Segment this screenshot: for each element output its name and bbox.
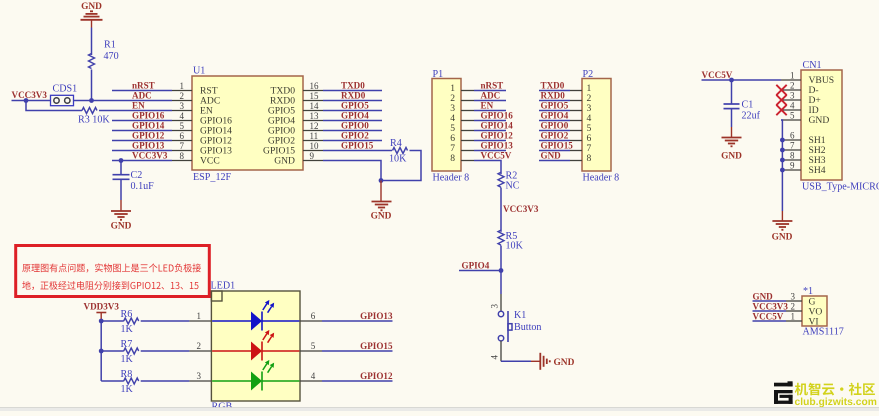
svg-text:Header 8: Header 8 <box>433 173 470 184</box>
net label VCC5V (AMS1117) <box>753 312 784 322</box>
wire net TXD0 (P2) <box>539 90 570 92</box>
net label nRST <box>132 81 155 91</box>
wire net TXD0 (U1 right) <box>323 90 382 92</box>
wire R1 to node <box>91 70 93 101</box>
svg-text:1K: 1K <box>121 324 134 335</box>
svg-text:10K: 10K <box>389 154 407 165</box>
svg-text:U1: U1 <box>193 66 205 77</box>
svg-text:470: 470 <box>104 51 119 62</box>
svg-text:4: 4 <box>311 371 316 381</box>
net label EN (P1) <box>481 101 494 111</box>
wire net GPIO5 (P2) <box>539 110 570 112</box>
wire to C2 <box>120 161 122 175</box>
wire net GPIO13 (P1) <box>474 150 506 152</box>
net label VCC3V3 <box>132 151 168 161</box>
wire net VCC3V3 <box>112 160 172 162</box>
svg-text:LED1: LED1 <box>211 281 236 292</box>
svg-text:GND: GND <box>753 292 774 302</box>
LED green <box>212 360 299 391</box>
net label EN <box>132 101 145 111</box>
net label GPIO12 <box>360 371 393 381</box>
svg-text:R1: R1 <box>104 40 116 51</box>
wire net RXD0 (U1 right) <box>323 100 382 102</box>
net label TXD0 (P2) <box>541 81 565 91</box>
svg-text:VCC3V3: VCC3V3 <box>753 302 789 312</box>
junction C2 <box>119 158 124 163</box>
svg-text:1: 1 <box>790 71 795 81</box>
wire C2 to ground <box>120 179 122 211</box>
svg-text:7: 7 <box>180 141 185 151</box>
net label ADC <box>132 91 152 101</box>
svg-text:RXD0: RXD0 <box>541 91 566 101</box>
net label GPIO2 (U1 right) <box>341 131 369 141</box>
wire EN branch <box>26 101 82 111</box>
svg-text:GPIO15: GPIO15 <box>360 341 393 351</box>
junction R4-GND <box>379 178 384 183</box>
LED blue <box>212 300 299 331</box>
annotation text line1 <box>22 263 201 272</box>
annotation text line2 <box>22 281 198 290</box>
wire net GND (P2) <box>539 160 570 162</box>
resistor R4 <box>389 138 408 165</box>
resistor R5 <box>498 230 524 251</box>
wire net GND (AMS1117) <box>753 300 787 302</box>
LED module LED1 RGB box <box>211 281 301 413</box>
svg-text:2: 2 <box>180 91 185 101</box>
wire net GPIO12 <box>112 140 172 142</box>
junction C1 <box>729 78 734 83</box>
svg-text:GND: GND <box>541 151 562 161</box>
junction R6 <box>99 319 104 324</box>
wire stub to ground <box>380 181 382 202</box>
no-connect X pin3 <box>776 95 786 105</box>
pin 3 label <box>490 304 500 309</box>
svg-text:2: 2 <box>791 302 796 312</box>
no-connect X pin4 <box>776 105 786 115</box>
regulator U2 AMS1117 <box>786 286 844 338</box>
ground GND (CN1) <box>772 221 793 243</box>
connector P1 Header 8 <box>432 69 474 184</box>
svg-text:Header 8: Header 8 <box>583 173 620 184</box>
annotation box <box>16 246 210 297</box>
net label GPIO15 (U1 right) <box>341 141 374 151</box>
net label GPIO13 <box>360 311 393 321</box>
net label GND (AMS1117) <box>753 292 774 302</box>
svg-text:VCC3V3: VCC3V3 <box>503 204 539 214</box>
svg-text:CN1: CN1 <box>803 60 822 71</box>
svg-text:R8: R8 <box>121 369 133 380</box>
net label GPIO14 <box>132 121 165 131</box>
connector P2 Header 8 <box>570 69 619 184</box>
wire R6 to LED <box>141 311 212 321</box>
wire VCC3V3 to CDS1 <box>12 100 51 102</box>
resistor R8 <box>101 369 139 395</box>
svg-text:GPIO4: GPIO4 <box>541 111 569 121</box>
power label VCC5V (CN1) <box>702 70 733 80</box>
pushbutton K1 <box>498 310 541 342</box>
net label GPIO0 (U1 right) <box>341 121 369 131</box>
ground GND (K1, rotated) <box>540 353 574 370</box>
svg-text:8: 8 <box>180 151 185 161</box>
ground GND (C1) <box>721 138 742 162</box>
svg-text:10K: 10K <box>506 241 524 252</box>
wire GPIO4 <box>459 270 501 272</box>
svg-text:GPIO12: GPIO12 <box>360 371 393 381</box>
svg-text:TXD0: TXD0 <box>341 81 365 91</box>
wire net GPIO2 (P2) <box>539 140 570 142</box>
svg-text:22uf: 22uf <box>742 111 761 122</box>
svg-text:Button: Button <box>514 322 541 333</box>
wire net GPIO14 <box>112 130 172 132</box>
wire R4 to ground <box>381 151 421 181</box>
svg-text:nRST: nRST <box>481 81 504 91</box>
svg-text:1: 1 <box>197 311 202 321</box>
svg-text:GND: GND <box>554 358 575 368</box>
power label VDD3V3 <box>84 302 120 322</box>
svg-text:12: 12 <box>310 121 319 131</box>
wire VDD rail <box>100 321 102 381</box>
svg-text:ADC: ADC <box>132 91 152 101</box>
net label GPIO4 <box>462 261 490 271</box>
no-connect X pin2 <box>776 85 786 95</box>
svg-text:GPIO12: GPIO12 <box>481 131 514 141</box>
net label GPIO16 <box>132 111 165 121</box>
svg-text:2: 2 <box>197 341 202 351</box>
wire net GPIO12 (P1) <box>474 140 506 142</box>
svg-text:8: 8 <box>790 151 795 161</box>
net label GPIO4 (U1 right) <box>341 111 369 121</box>
logo glyph <box>774 381 793 404</box>
net label GPIO15 <box>360 341 393 351</box>
svg-text:GPIO16: GPIO16 <box>481 111 514 121</box>
connector CN1 USB_Type-MICRO <box>781 60 879 193</box>
photoresistor CDS1 <box>51 84 78 106</box>
wire R8 to LED <box>141 371 212 381</box>
ground GND (R4) <box>371 202 392 222</box>
svg-text:SH4: SH4 <box>809 165 826 176</box>
net label nRST (P1) <box>481 81 504 91</box>
svg-text:VCC5V: VCC5V <box>702 70 733 80</box>
wire net GPIO15 (P2) <box>539 150 570 152</box>
svg-text:R3 10K: R3 10K <box>78 115 110 126</box>
svg-text:RXD0: RXD0 <box>341 91 366 101</box>
resistor R1 <box>89 40 119 69</box>
svg-text:GPIO4: GPIO4 <box>462 261 490 271</box>
svg-text:VCC3V3: VCC3V3 <box>12 90 48 100</box>
wire GPIO15 to R4 <box>323 150 392 152</box>
svg-text:6: 6 <box>790 131 795 141</box>
svg-text:R4: R4 <box>390 138 402 149</box>
net label GPIO13 <box>132 141 165 151</box>
svg-text:GPIO0: GPIO0 <box>541 121 569 131</box>
wire GPIO15 <box>300 341 393 351</box>
svg-text:6: 6 <box>180 131 185 141</box>
power label VCC3V3 (left) <box>12 90 48 100</box>
net label GPIO13 (P1) <box>481 141 514 151</box>
svg-text:C2: C2 <box>131 170 143 181</box>
wire K1 to ground <box>501 341 540 362</box>
svg-text:VCC5V: VCC5V <box>481 151 512 161</box>
net label TXD0 (U1 right) <box>341 81 365 91</box>
net label GPIO15 (P2) <box>541 141 574 151</box>
svg-text:GPIO14: GPIO14 <box>132 121 165 131</box>
wire net GPIO4 (P2) <box>539 120 570 122</box>
wire VCC5V to R2 <box>474 161 501 175</box>
junction R7 <box>99 349 104 354</box>
svg-text:9: 9 <box>310 151 315 161</box>
svg-text:GPIO0: GPIO0 <box>341 121 369 131</box>
net label RXD0 (U1 right) <box>341 91 366 101</box>
wire net ADC (P1) <box>474 100 506 102</box>
svg-text:10: 10 <box>310 141 320 151</box>
svg-text:GND: GND <box>721 152 742 162</box>
svg-text:3: 3 <box>197 371 202 381</box>
wire R2 to R5 <box>500 188 502 232</box>
svg-text:GPIO5: GPIO5 <box>341 101 369 111</box>
svg-text:5: 5 <box>311 341 316 351</box>
svg-text:VCC5V: VCC5V <box>753 312 784 322</box>
svg-text:9: 9 <box>790 161 795 171</box>
net label VCC3V3 (mid) <box>503 204 539 214</box>
svg-text:GPIO5: GPIO5 <box>541 101 569 111</box>
wire net VCC3V3 (AMS1117) <box>753 310 787 312</box>
svg-text:4: 4 <box>790 101 795 111</box>
IC U1 ESP_12F <box>172 66 323 184</box>
svg-text:*1: *1 <box>803 286 813 297</box>
junction GPIO4 <box>499 268 504 273</box>
net label GPIO4 (P2) <box>541 111 569 121</box>
wire bus to ground <box>781 211 783 221</box>
net label GPIO5 (P2) <box>541 101 569 111</box>
svg-text:C1: C1 <box>742 100 754 111</box>
capacitor C1 <box>724 100 761 122</box>
capacitor C2 <box>113 170 155 192</box>
svg-text:0.1uF: 0.1uF <box>131 181 155 192</box>
wire VCC5V <box>702 79 782 81</box>
wire net GPIO0 (P2) <box>539 130 570 132</box>
svg-text:P1: P1 <box>433 69 444 80</box>
wire net EN (P1) <box>474 110 506 112</box>
svg-text:GND: GND <box>111 222 132 232</box>
svg-text:EN: EN <box>481 101 494 111</box>
svg-text:6: 6 <box>311 311 316 321</box>
svg-text:4: 4 <box>180 111 185 121</box>
svg-text:VCC: VCC <box>200 156 220 167</box>
svg-text:3: 3 <box>790 91 795 101</box>
wire net GPIO16 <box>112 120 172 122</box>
svg-text:TXD0: TXD0 <box>541 81 565 91</box>
svg-text:GPIO12: GPIO12 <box>132 131 165 141</box>
junction <box>24 98 29 103</box>
net label GPIO0 (P2) <box>541 121 569 131</box>
svg-text:3: 3 <box>490 304 500 309</box>
svg-text:NC: NC <box>506 181 520 192</box>
svg-text:GPIO13: GPIO13 <box>481 141 514 151</box>
wire R5 to node <box>500 246 502 271</box>
svg-text:P2: P2 <box>583 69 594 80</box>
net label VCC5V (P1) <box>481 151 512 161</box>
wire CDS1 to ADC pin <box>74 100 173 102</box>
wire R3 to EN pin <box>99 110 172 112</box>
junction shield 170 <box>780 168 785 173</box>
LED red <box>212 330 299 361</box>
net label GND (P2) <box>541 151 562 161</box>
wire R7 to LED <box>141 341 212 351</box>
svg-text:15: 15 <box>310 91 320 101</box>
wire GPIO12 <box>300 371 393 381</box>
svg-text:GPIO13: GPIO13 <box>132 141 165 151</box>
svg-text:1K: 1K <box>121 384 134 395</box>
svg-text:1: 1 <box>180 81 185 91</box>
wire net nRST (P1) <box>474 90 506 92</box>
svg-text:3: 3 <box>180 101 185 111</box>
svg-text:5: 5 <box>790 111 795 121</box>
net label GPIO14 (P1) <box>481 121 514 131</box>
wire net GPIO5 (U1 right) <box>323 110 382 112</box>
wire to C1 <box>731 80 733 104</box>
wire GPIO13 <box>300 311 393 321</box>
svg-text:VDD3V3: VDD3V3 <box>84 302 120 312</box>
svg-text:GPIO2: GPIO2 <box>541 131 569 141</box>
svg-text:GPIO4: GPIO4 <box>341 111 369 121</box>
logo text <box>795 383 875 396</box>
svg-text:AMS1117: AMS1117 <box>803 327 844 338</box>
svg-text:R7: R7 <box>121 339 133 350</box>
resistor R3 <box>78 108 110 126</box>
svg-text:ADC: ADC <box>481 91 501 101</box>
svg-text:GND: GND <box>371 212 392 222</box>
net label ADC (P1) <box>481 91 501 101</box>
wire node to K1 <box>500 271 502 312</box>
svg-text:7: 7 <box>790 141 795 151</box>
svg-text:2: 2 <box>790 81 795 91</box>
resistor R6 <box>101 309 139 335</box>
wire net RXD0 (P2) <box>539 100 570 102</box>
net label VCC3V3 (AMS1117) <box>753 302 789 312</box>
svg-text:14: 14 <box>310 101 320 111</box>
svg-text:GND: GND <box>274 156 295 167</box>
junction shield 160 <box>780 158 785 163</box>
wire net GPIO2 (U1 right) <box>323 140 382 142</box>
svg-text:GPIO15: GPIO15 <box>541 141 574 151</box>
svg-text:R6: R6 <box>121 309 133 320</box>
svg-text:GPIO16: GPIO16 <box>132 111 165 121</box>
svg-text:5: 5 <box>180 121 185 131</box>
svg-text:K1: K1 <box>514 310 526 321</box>
wire GND pin9 <box>323 161 381 181</box>
svg-text:GPIO15: GPIO15 <box>341 141 374 151</box>
pin 4 label <box>490 355 500 360</box>
svg-text:11: 11 <box>310 131 319 141</box>
svg-text:ESP_12F: ESP_12F <box>193 172 232 183</box>
svg-text:USB_Type-MICRO: USB_Type-MICRO <box>802 182 879 193</box>
net label GPIO12 <box>132 131 165 141</box>
svg-text:8: 8 <box>587 153 592 164</box>
resistor R7 <box>101 339 139 365</box>
svg-text:GPIO2: GPIO2 <box>341 131 369 141</box>
svg-text:16: 16 <box>310 81 320 91</box>
wire net GPIO13 <box>112 150 172 152</box>
svg-text:4: 4 <box>490 355 500 360</box>
svg-text:13: 13 <box>310 111 320 121</box>
svg-text:VI: VI <box>809 316 819 327</box>
junction shield 150 <box>780 148 785 153</box>
wire GND to R1 <box>91 28 93 56</box>
svg-text:GPIO13: GPIO13 <box>360 311 393 321</box>
svg-text:GND: GND <box>809 115 830 126</box>
wire net VCC5V (AMS1117) <box>753 320 787 322</box>
ground GND (top, inverted) <box>81 2 103 28</box>
resistor R2 <box>498 171 520 192</box>
wire net GPIO16 (P1) <box>474 120 506 122</box>
svg-text:EN: EN <box>132 101 145 111</box>
net label GPIO2 (P2) <box>541 131 569 141</box>
wire net nRST <box>112 90 172 92</box>
wire C1 to ground <box>731 109 733 138</box>
junction shield 140 <box>780 138 785 143</box>
junction node A <box>89 98 94 103</box>
svg-text:nRST: nRST <box>132 81 155 91</box>
wire net GPIO14 (P1) <box>474 130 506 132</box>
svg-text:GND: GND <box>772 233 793 243</box>
svg-text:3: 3 <box>791 292 796 302</box>
wire net GPIO0 (U1 right) <box>323 130 382 132</box>
svg-text:1: 1 <box>791 312 796 322</box>
net label GPIO16 (P1) <box>481 111 514 121</box>
svg-text:8: 8 <box>450 153 455 164</box>
svg-text:VCC3V3: VCC3V3 <box>132 151 168 161</box>
net label RXD0 (P2) <box>541 91 566 101</box>
svg-text:1K: 1K <box>121 354 134 365</box>
logo url <box>795 398 876 408</box>
wire net GPIO4 (U1 right) <box>323 120 382 122</box>
ground GND (C2) <box>111 211 132 232</box>
net label GPIO5 (U1 right) <box>341 101 369 111</box>
svg-text:GPIO14: GPIO14 <box>481 121 514 131</box>
wire shield bus <box>781 120 782 211</box>
bottom gray strip <box>0 408 879 412</box>
net label GPIO12 (P1) <box>481 131 514 141</box>
svg-text:CDS1: CDS1 <box>53 84 78 95</box>
